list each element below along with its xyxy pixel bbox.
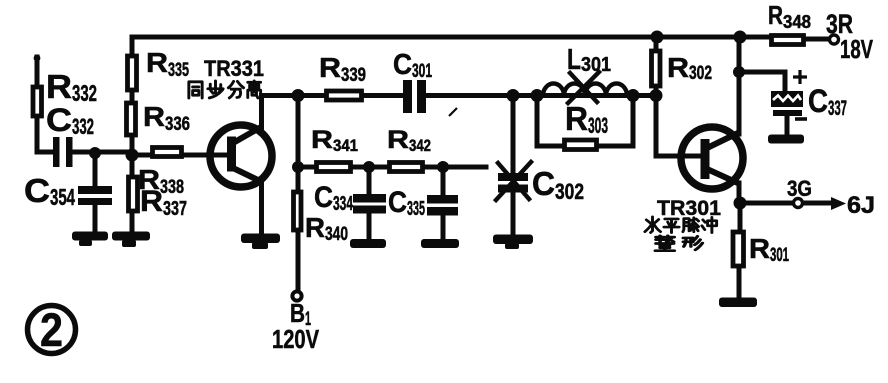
svg-text:TR331: TR331 xyxy=(204,56,264,81)
svg-text:120V: 120V xyxy=(272,324,319,354)
svg-text:2: 2 xyxy=(40,303,63,356)
svg-text:6J: 6J xyxy=(847,192,875,219)
svg-text:3G: 3G xyxy=(787,176,812,201)
svg-text:18V: 18V xyxy=(840,34,873,64)
